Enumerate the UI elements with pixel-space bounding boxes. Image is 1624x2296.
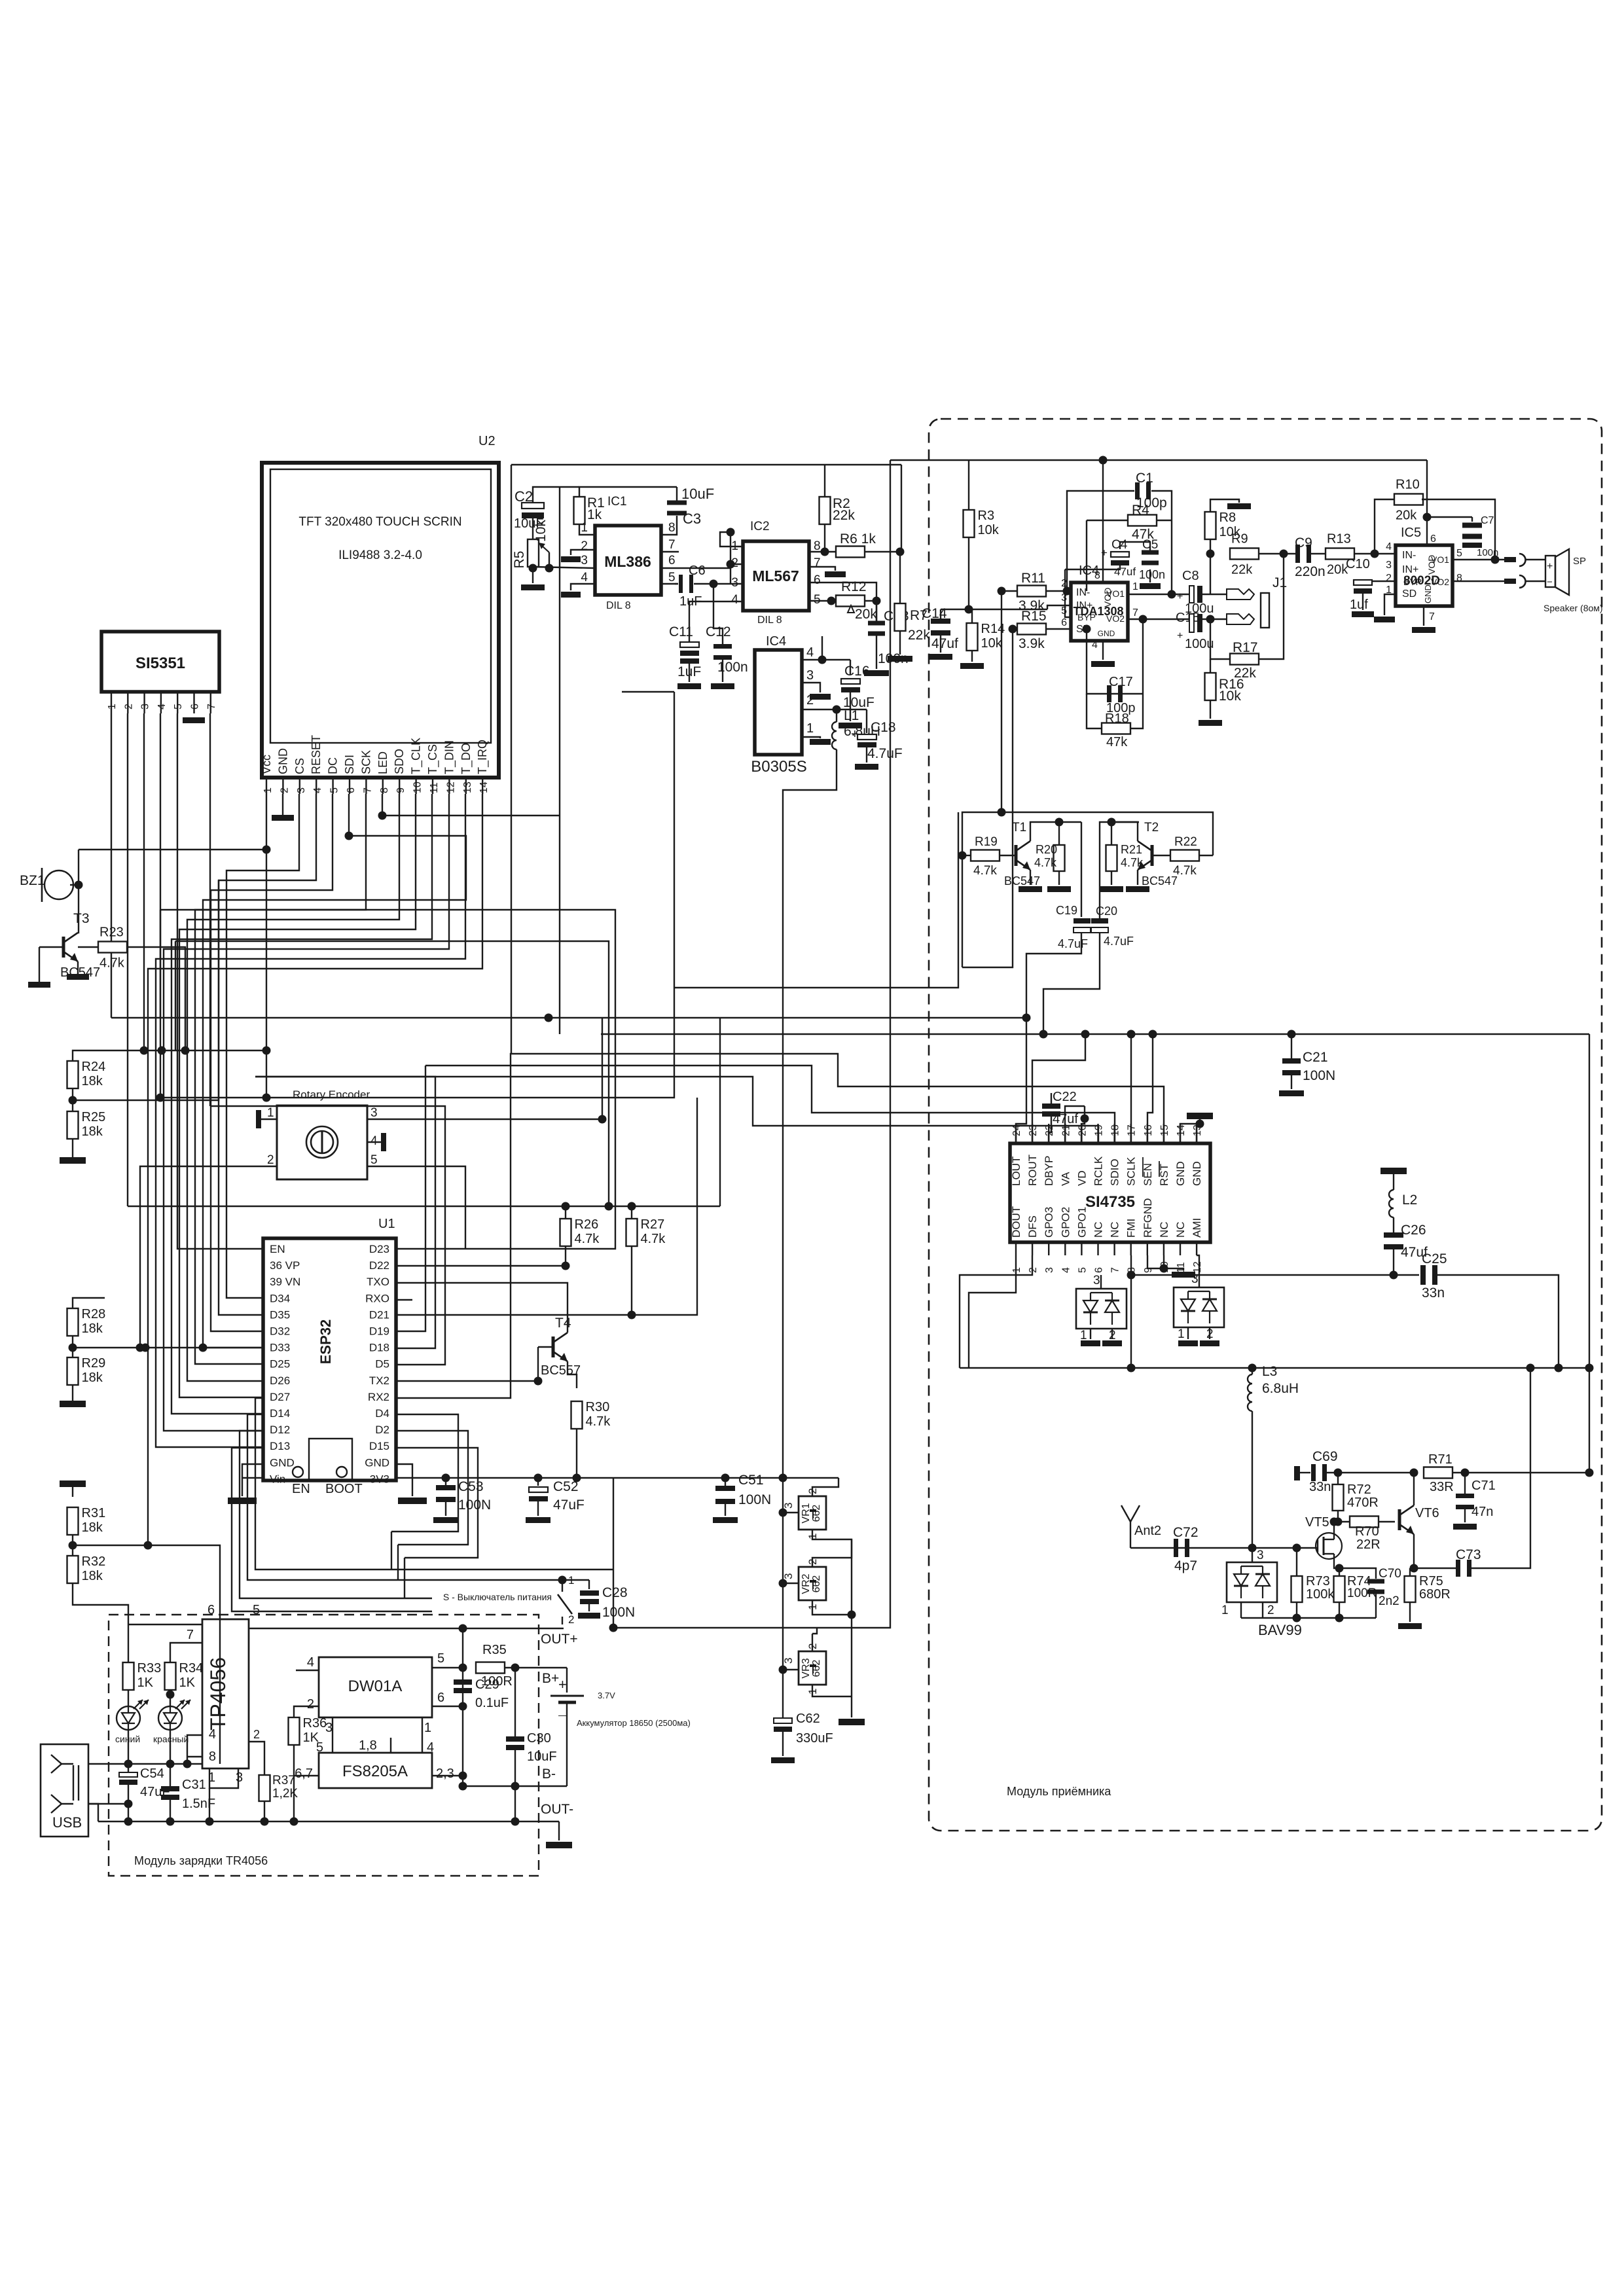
- wire LEDs to rail: [128, 1730, 129, 1764]
- wire R32 bottom: [73, 1583, 128, 1624]
- svg-text:EN: EN: [292, 1482, 310, 1496]
- svg-text:R72: R72: [1347, 1482, 1371, 1497]
- svg-text:GND: GND: [1423, 584, 1433, 603]
- svg-text:FS8205A: FS8205A: [342, 1763, 408, 1780]
- svg-text:C54: C54: [140, 1767, 164, 1781]
- svg-text:4: 4: [156, 704, 168, 709]
- svg-text:B-: B-: [542, 1767, 556, 1782]
- svg-text:VO1: VO1: [1431, 554, 1449, 565]
- wire ML567 pin1: [720, 532, 743, 547]
- svg-text:C22: C22: [1053, 1090, 1077, 1104]
- svg-text:R8: R8: [1219, 511, 1236, 525]
- svg-text:3: 3: [325, 1721, 333, 1735]
- wire C15 to jack: [1202, 619, 1227, 620]
- svg-text:TXO: TXO: [367, 1276, 389, 1288]
- ground at TFT pin 2 GND: [282, 794, 283, 815]
- inductor L3 6.8uH: [1252, 1368, 1253, 1374]
- wire FMI pin8: [1130, 1255, 1132, 1368]
- capacitor C17 100p: [1087, 629, 1143, 694]
- svg-text:47uf: 47uf: [1114, 565, 1136, 578]
- charger module dashed border: [109, 1615, 539, 1876]
- wire VO1 to C8: [1128, 594, 1189, 595]
- svg-text:2: 2: [279, 787, 290, 793]
- ground at ML386 pin2: [571, 550, 595, 555]
- ground at ML386 pin4: [571, 584, 595, 590]
- ESP32 BOOT button circle: [336, 1467, 347, 1477]
- ground below C16: [850, 692, 851, 721]
- svg-text:2: 2: [731, 556, 738, 570]
- svg-text:100k: 100k: [1306, 1587, 1335, 1602]
- svg-text:5: 5: [1061, 605, 1067, 617]
- svg-text:5: 5: [1077, 1267, 1088, 1273]
- svg-text:C19: C19: [1056, 904, 1077, 917]
- svg-text:BAV99: BAV99: [1258, 1622, 1302, 1638]
- USB connector: [41, 1744, 88, 1837]
- svg-text:BC557: BC557: [541, 1363, 581, 1378]
- resistor R36 1K: [289, 1717, 300, 1745]
- svg-text:C30: C30: [527, 1731, 551, 1746]
- svg-text:8: 8: [1456, 573, 1462, 584]
- wire R24 top: [73, 1050, 266, 1061]
- svg-text:3: 3: [782, 1658, 795, 1664]
- svg-text:2: 2: [267, 1153, 274, 1167]
- wire bus E main: [601, 1033, 1589, 1035]
- wire from bus to SCLK: [1130, 1034, 1132, 1143]
- svg-text:7: 7: [187, 1628, 194, 1642]
- svg-text:1: 1: [806, 721, 814, 736]
- wire VT6 collector: [1413, 1473, 1415, 1505]
- svg-text:BC547: BC547: [1142, 874, 1178, 888]
- svg-text:C70: C70: [1379, 1567, 1401, 1581]
- resistor R28 18k: [67, 1308, 79, 1336]
- wire VT5 source to R74: [1334, 1562, 1339, 1576]
- ground at SI5351 pin 6: [183, 717, 205, 723]
- svg-text:5: 5: [173, 704, 184, 709]
- svg-text:11: 11: [429, 782, 440, 793]
- resistor R29 18k: [67, 1357, 79, 1385]
- wire VT5 gate: [1317, 1547, 1318, 1549]
- svg-text:ML386: ML386: [604, 553, 651, 570]
- svg-text:C16: C16: [844, 664, 870, 679]
- wire TFT pin6 SDI: [203, 794, 466, 1348]
- LED red: [158, 1706, 182, 1730]
- svg-text:15: 15: [1159, 1124, 1170, 1136]
- resistor R3 10k: [964, 510, 975, 537]
- resistor R1 1k: [574, 497, 585, 524]
- svg-text:680R: 680R: [1419, 1587, 1451, 1602]
- resistor R75 680R: [1405, 1576, 1416, 1602]
- svg-text:10k: 10k: [1219, 689, 1241, 704]
- svg-text:D34: D34: [270, 1292, 290, 1304]
- resistor R21 4.7k: [1106, 845, 1117, 871]
- resistor R72 470R: [1333, 1484, 1344, 1511]
- wire R2 top: [824, 465, 825, 497]
- ground below C5: [1140, 583, 1161, 589]
- svg-text:D35: D35: [270, 1308, 290, 1321]
- wire ML386 pin8 to C3: [661, 516, 677, 535]
- svg-text:C10: C10: [1346, 557, 1370, 571]
- resistor R16 10k: [1205, 673, 1216, 700]
- wire NC pin10: [1163, 1255, 1164, 1268]
- wire C20 bottom: [1043, 933, 1100, 1034]
- svg-text:6: 6: [346, 787, 357, 793]
- svg-text:18k: 18k: [82, 1569, 103, 1583]
- wire R15 column down: [962, 629, 1013, 967]
- ESP32 right GND ground: [396, 1464, 412, 1496]
- svg-text:R9: R9: [1231, 532, 1248, 547]
- resistor R71 33R: [1424, 1467, 1453, 1479]
- svg-text:2: 2: [581, 539, 588, 553]
- wire B0305S pin2 node: [802, 709, 867, 710]
- wire D14 loop: [247, 1414, 398, 1580]
- svg-text:SDIO: SDIO: [1109, 1158, 1121, 1186]
- svg-text:47uF: 47uF: [553, 1498, 585, 1513]
- svg-text:L1: L1: [844, 708, 859, 723]
- svg-text:TX2: TX2: [369, 1374, 389, 1387]
- wire VR1 pin1 to VR2 pin2: [812, 1530, 852, 1567]
- svg-text:RESET: RESET: [310, 735, 323, 774]
- capacitor C71 47n: [1464, 1473, 1466, 1494]
- svg-text:330uF: 330uF: [796, 1731, 833, 1746]
- svg-text:Ant2: Ant2: [1134, 1524, 1161, 1538]
- svg-text:3: 3: [370, 1106, 378, 1120]
- svg-text:D25: D25: [270, 1358, 290, 1371]
- capacitor C26 47uf: [1393, 1217, 1394, 1233]
- capacitor C54 47uF: [128, 1764, 129, 1775]
- svg-text:4.7uF: 4.7uF: [867, 746, 903, 761]
- wire TFT pin5 DC: [211, 794, 333, 1331]
- svg-text:Rotary Encoder: Rotary Encoder: [293, 1088, 370, 1101]
- svg-text:DFS: DFS: [1026, 1215, 1039, 1238]
- IC FS8205A: [319, 1753, 432, 1788]
- svg-text:VT6: VT6: [1415, 1506, 1439, 1520]
- svg-text:4.7k: 4.7k: [1034, 856, 1057, 869]
- wire TX2: [396, 1380, 538, 1382]
- svg-text:VR3: VR3: [801, 1658, 812, 1678]
- wire 3V3 rail: [396, 1477, 839, 1479]
- capacitor C51 100N: [725, 1478, 726, 1486]
- svg-text:3: 3: [731, 576, 738, 590]
- svg-text:100n: 100n: [1477, 547, 1498, 558]
- wire R3 top: [968, 460, 969, 510]
- svg-text:D21: D21: [369, 1308, 389, 1321]
- svg-text:GPO3: GPO3: [1043, 1207, 1055, 1238]
- svg-text:36 VP: 36 VP: [270, 1259, 300, 1272]
- wire R5 wiper: [549, 552, 550, 568]
- ground below R14: [971, 651, 973, 662]
- svg-text:OUT+: OUT+: [541, 1632, 578, 1647]
- wire R35 right: [505, 1667, 567, 1668]
- wire TFT pin9 SDO: [187, 794, 399, 1381]
- svg-text:20: 20: [1077, 1124, 1088, 1136]
- svg-text:NC: NC: [1092, 1221, 1105, 1238]
- wire VOD top: [1426, 460, 1428, 545]
- svg-text:+: +: [1177, 630, 1183, 641]
- svg-text:3.9k: 3.9k: [1019, 636, 1045, 651]
- wire R13 to IN-: [1354, 553, 1396, 554]
- vertical supply x707: [462, 1628, 463, 1786]
- wire R30 bottom: [576, 1429, 577, 1478]
- wire receiver top power rail: [890, 459, 1427, 461]
- svg-text:2: 2: [123, 704, 134, 709]
- stub ML386 pin7: [661, 551, 679, 552]
- svg-text:10uF: 10uF: [681, 486, 714, 502]
- wire SI5351 pin4: [160, 713, 161, 1098]
- wire VT6 emitter: [1413, 1534, 1415, 1568]
- LED blue: [117, 1706, 140, 1730]
- svg-text:C53: C53: [458, 1479, 484, 1494]
- wire D27 loop: [255, 1398, 391, 1570]
- svg-text:6: 6: [668, 554, 676, 567]
- svg-text:C7: C7: [1481, 515, 1494, 526]
- svg-text:R3: R3: [978, 509, 995, 523]
- resistor R8 10k: [1205, 512, 1216, 539]
- svg-text:R75: R75: [1419, 1574, 1443, 1588]
- wire D12 loop: [240, 1431, 405, 1598]
- svg-text:11: 11: [1176, 1262, 1187, 1273]
- wire T2 collector: [1111, 822, 1138, 841]
- wire VR1 pin3: [783, 1512, 799, 1513]
- svg-text:R11: R11: [1021, 571, 1045, 586]
- svg-text:R37: R37: [272, 1774, 295, 1787]
- resistor R37 1.2K: [249, 1742, 264, 1775]
- wire C69 right: [1326, 1472, 1414, 1473]
- svg-text:47k: 47k: [1106, 735, 1128, 749]
- svg-text:1,8: 1,8: [359, 1738, 377, 1753]
- wire T1T2 top loop: [962, 812, 1213, 855]
- wire C6 to ML567 pin3: [675, 583, 678, 584]
- svg-text:4: 4: [209, 1727, 216, 1742]
- wire RFGND ground: [1147, 1255, 1183, 1270]
- svg-text:1K: 1K: [137, 1676, 154, 1690]
- svg-text:7: 7: [1132, 607, 1138, 619]
- svg-text:16: 16: [1143, 1124, 1154, 1136]
- potentiometer R12 20k: [836, 596, 865, 607]
- svg-text:12: 12: [445, 781, 456, 793]
- wire TFT pin14 T_IRQ: [148, 794, 482, 1545]
- capacitor C30 10uF: [514, 1668, 516, 1738]
- wire R15 left: [1013, 628, 1017, 630]
- svg-text:2: 2: [806, 1559, 819, 1565]
- svg-text:9: 9: [395, 787, 406, 793]
- svg-text:10k: 10k: [981, 636, 1003, 651]
- wire bus E drop ROUT: [1032, 1034, 1085, 1143]
- svg-text:R29: R29: [82, 1356, 106, 1371]
- radio IC SI4735: [1010, 1143, 1210, 1242]
- wire TP4056 pin5 OUT+: [249, 1628, 251, 1629]
- svg-text:T_CLK: T_CLK: [410, 738, 424, 774]
- svg-text:VO1: VO1: [1106, 588, 1125, 599]
- regulator VR3 662: [812, 1634, 813, 1651]
- wire SD stub: [1384, 594, 1396, 615]
- svg-text:R19: R19: [975, 835, 998, 849]
- resistor R4 47k: [1087, 520, 1130, 521]
- svg-text:R31: R31: [82, 1506, 106, 1520]
- svg-text:AMI: AMI: [1191, 1218, 1203, 1238]
- svg-text:1: 1: [581, 521, 588, 535]
- svg-text:18k: 18k: [82, 1124, 103, 1139]
- svg-text:EN: EN: [270, 1243, 285, 1255]
- svg-text:IN+: IN+: [1076, 600, 1092, 611]
- svg-text:7: 7: [814, 556, 821, 570]
- svg-text:3: 3: [1386, 560, 1392, 571]
- svg-text:R20: R20: [1036, 843, 1057, 856]
- svg-text:3: 3: [236, 1770, 243, 1785]
- svg-text:6: 6: [1061, 617, 1067, 628]
- svg-text:D2: D2: [375, 1424, 389, 1436]
- svg-text:4.7k: 4.7k: [575, 1232, 600, 1246]
- capacitor C29 0.1uF: [454, 1679, 472, 1685]
- ground below R75: [1409, 1602, 1411, 1622]
- ESP32 USB notch: [309, 1439, 352, 1480]
- wire R23 right: [127, 947, 185, 1050]
- svg-text:R13: R13: [1327, 532, 1351, 547]
- wire RX2: [396, 1054, 655, 1398]
- antenna Ant2: [1130, 1522, 1131, 1548]
- resistor R73 100k: [1291, 1576, 1303, 1602]
- inductor L2: [1393, 1174, 1394, 1190]
- svg-text:GND: GND: [1098, 629, 1115, 638]
- resistor R33 1K: [123, 1662, 134, 1690]
- svg-text:RFGND: RFGND: [1142, 1198, 1154, 1238]
- svg-text:1K: 1K: [179, 1676, 196, 1690]
- resistor R19 4.7k: [971, 850, 1000, 861]
- regulator VR1 662: [799, 1496, 826, 1530]
- wire right vertical x2428: [1589, 1034, 1590, 1473]
- ground at OUT-: [558, 1821, 560, 1840]
- wire DOUT pin1 down: [969, 1255, 1016, 1368]
- svg-text:T3: T3: [73, 911, 90, 926]
- svg-text:5: 5: [370, 1153, 378, 1167]
- svg-text:10k: 10k: [978, 523, 1000, 537]
- svg-text:4: 4: [731, 593, 738, 607]
- ground below R29: [72, 1385, 73, 1401]
- wire BYP to C4: [1065, 569, 1071, 617]
- svg-text:R6 1k: R6 1k: [840, 531, 876, 547]
- svg-text:C8: C8: [1182, 569, 1199, 583]
- wire T3 collector to R23: [78, 946, 98, 948]
- svg-text:RX2: RX2: [368, 1391, 389, 1403]
- svg-text:R22: R22: [1174, 835, 1197, 849]
- svg-text:USB: USB: [52, 1814, 82, 1831]
- jack J1: [1227, 589, 1254, 600]
- wire B0305S pin4 to C16: [802, 659, 850, 660]
- svg-text:DBYP: DBYP: [1043, 1156, 1055, 1186]
- svg-text:VT5: VT5: [1305, 1515, 1329, 1530]
- wire R11 column down: [1001, 591, 1002, 812]
- wire C73 right up: [1471, 1368, 1530, 1568]
- wire T4 collector: [412, 1283, 568, 1333]
- svg-text:1: 1: [424, 1721, 431, 1735]
- svg-text:4.7k: 4.7k: [973, 864, 997, 878]
- svg-text:14: 14: [478, 781, 490, 793]
- wire TFT pin11 T_CS: [171, 794, 432, 1414]
- svg-text:0.1uF: 0.1uF: [475, 1696, 509, 1710]
- svg-text:7: 7: [362, 787, 373, 793]
- svg-text:100n: 100n: [1139, 568, 1165, 581]
- ground below R7: [899, 631, 901, 655]
- wire C69 input terminal: [1294, 1466, 1300, 1480]
- resistor R35 100R: [476, 1662, 505, 1674]
- svg-text:DIL 8: DIL 8: [606, 600, 631, 611]
- svg-text:D32: D32: [270, 1325, 290, 1338]
- wire D18: [255, 1077, 435, 1348]
- wire C22 to DBYP: [1049, 1117, 1051, 1143]
- wire R9 right: [1259, 553, 1297, 554]
- wire C73 line: [1414, 1568, 1457, 1569]
- svg-text:SDI: SDI: [343, 755, 356, 774]
- svg-text:R15: R15: [1021, 609, 1047, 624]
- resistor R23 4.7k: [98, 942, 127, 953]
- wire switch to C28: [562, 1579, 589, 1581]
- wire R1 bottom to pin1: [579, 524, 595, 535]
- svg-text:20k: 20k: [1396, 509, 1417, 523]
- svg-text:47k: 47k: [1132, 527, 1154, 542]
- svg-text:2: 2: [307, 1697, 314, 1712]
- ground above R31: [60, 1480, 86, 1487]
- svg-text:8: 8: [209, 1749, 216, 1764]
- svg-text:8: 8: [379, 787, 390, 793]
- wire SI5351 pin7: [209, 713, 211, 1106]
- svg-text:R21: R21: [1121, 843, 1142, 856]
- svg-text:L2: L2: [1402, 1193, 1417, 1208]
- ground below C14: [940, 635, 941, 653]
- svg-text:D27: D27: [270, 1391, 290, 1403]
- svg-text:1: 1: [107, 704, 118, 709]
- svg-text:4: 4: [1060, 1267, 1072, 1273]
- svg-text:+: +: [1177, 591, 1183, 602]
- capacitor C53 100N: [445, 1478, 446, 1486]
- resistor R24 18k: [67, 1061, 79, 1088]
- ground below C10: [1362, 594, 1363, 610]
- svg-text:C31: C31: [182, 1778, 206, 1792]
- svg-text:D12: D12: [270, 1424, 290, 1436]
- capacitor C70 2n2: [1339, 1568, 1376, 1579]
- svg-text:39 VN: 39 VN: [270, 1276, 300, 1288]
- svg-text:C3: C3: [683, 511, 701, 527]
- wire 3v3 top rail: [128, 1206, 720, 1207]
- capacitor C31 1.5nF: [170, 1764, 171, 1786]
- wire TDA1308 VOD top: [1102, 460, 1104, 583]
- ground IC5 GND: [1423, 606, 1424, 626]
- svg-text:2n2: 2n2: [1379, 1594, 1399, 1608]
- capacitor C52 47uF: [537, 1478, 539, 1486]
- wire C9 to R13: [1310, 553, 1328, 554]
- wire C8 to jack: [1202, 594, 1227, 595]
- svg-text:RXO: RXO: [365, 1292, 389, 1304]
- wire R15 to SD: [1046, 628, 1071, 630]
- svg-text:3: 3: [806, 668, 814, 683]
- svg-text:NC: NC: [1158, 1221, 1170, 1238]
- wire USB lower: [88, 1803, 128, 1804]
- svg-text:D5: D5: [375, 1358, 389, 1371]
- capacitor C21 100N: [1291, 1034, 1292, 1059]
- capacitor C13 100n: [876, 601, 877, 621]
- svg-text:Модуль зарядки TR4056: Модуль зарядки TR4056: [134, 1854, 268, 1867]
- svg-text:3: 3: [1257, 1549, 1264, 1562]
- svg-text:T_CS: T_CS: [426, 744, 440, 774]
- svg-text:23: 23: [1028, 1124, 1039, 1136]
- svg-text:R73: R73: [1306, 1574, 1330, 1588]
- svg-text:8: 8: [668, 521, 676, 535]
- ground below R16: [1210, 700, 1211, 719]
- svg-text:7: 7: [1429, 611, 1435, 622]
- svg-text:ILI9488 3.2-4.0: ILI9488 3.2-4.0: [338, 548, 422, 562]
- svg-text:C69: C69: [1312, 1449, 1338, 1464]
- svg-text:B+: B+: [542, 1671, 559, 1686]
- resistor R9 22k: [1230, 548, 1259, 560]
- ESP32 boot EN button circle: [293, 1467, 303, 1477]
